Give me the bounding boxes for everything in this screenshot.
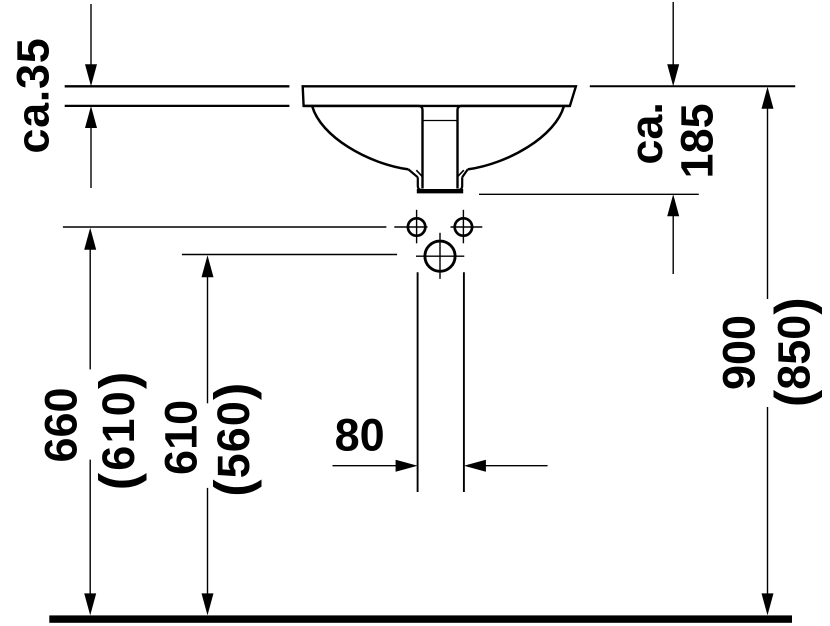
dim 610(560) line upper: [207, 276, 209, 403]
drain cup outer walls: [418, 177, 462, 190]
counter top reference line (right): [590, 85, 795, 87]
svg-text:(610): (610): [90, 370, 148, 491]
svg-text:185: 185: [671, 103, 722, 178]
dim 660(610) arrow up: [84, 228, 96, 250]
fixing hole left circle: [408, 218, 425, 235]
svg-text:(560): (560): [205, 382, 263, 497]
drain hole circle: [425, 241, 455, 271]
basin bowl left arc: [312, 107, 408, 170]
dim 900(850) arrow up: [762, 87, 774, 109]
dim 900(850) arrow down: [762, 593, 774, 615]
svg-text:(850): (850): [765, 297, 823, 407]
svg-text:900: 900: [714, 315, 765, 390]
counter bottom line (left): [65, 105, 290, 107]
dim 900(850) line upper: [767, 108, 769, 299]
dim 660(610) arrow down: [84, 593, 96, 615]
svg-text:ca.: ca.: [621, 102, 672, 165]
counter top line (left): [65, 85, 290, 87]
fixing hole right circle: [455, 218, 472, 235]
dim 660(610) line upper: [89, 249, 91, 370]
dim ca.35 lower arrow: [85, 106, 97, 128]
drain cup right shoulder outer: [462, 169, 468, 177]
dim ca.185 lower line: [672, 215, 674, 274]
crosshair right hole horizontal: [451, 226, 483, 228]
svg-text:660: 660: [36, 387, 87, 462]
crosshair left hole vertical: [416, 210, 418, 244]
dim 610(560) arrow up: [202, 255, 214, 277]
dim ca.35 upper line: [90, 4, 92, 66]
floor line: [49, 615, 792, 622]
drain cup bottom (thick): [417, 189, 463, 193]
basin rim: [303, 86, 576, 106]
basin bowl right arc: [468, 107, 564, 170]
drain cup left shoulder inner: [416, 170, 422, 177]
dim ca.185 lower arrow: [667, 194, 679, 216]
crosshair right hole vertical: [462, 210, 464, 244]
drain pipe left line: [417, 272, 419, 492]
dim 610(560) arrow down: [202, 593, 214, 615]
svg-text:80: 80: [335, 410, 385, 461]
drain column left wall: [304, 106, 423, 189]
reference line holes level: [63, 226, 387, 228]
dim ca.185 upper line: [672, 2, 674, 66]
dim 660(610) line lower: [89, 460, 91, 595]
reference line drain level: [182, 254, 397, 256]
drain column right wall: [458, 106, 570, 189]
dim ca.35 lower line: [90, 127, 92, 188]
svg-text:ca.35: ca.35: [8, 38, 59, 154]
dim ca.185 upper arrow: [667, 64, 679, 86]
dim 80 left arrow: [396, 460, 418, 472]
drain cup left shoulder outer: [408, 169, 417, 177]
svg-text:610: 610: [156, 400, 207, 475]
drain pipe right line: [463, 272, 465, 492]
dim 610(560) line lower: [207, 488, 209, 595]
drain cup right shoulder inner: [458, 170, 464, 177]
dim 80 right arrow: [464, 460, 486, 472]
crosshair left hole horizontal: [394, 226, 427, 228]
reference line siphon bottom level: [479, 193, 699, 195]
dim 80 left line: [333, 465, 398, 467]
drain column inner water line: [423, 120, 457, 122]
dim ca.35 upper arrow: [85, 64, 97, 86]
crosshair drain hole horizontal: [416, 255, 464, 257]
crosshair drain hole vertical: [439, 233, 441, 279]
dim 80 right line: [485, 465, 548, 467]
dim 900(850) line lower: [767, 407, 769, 594]
